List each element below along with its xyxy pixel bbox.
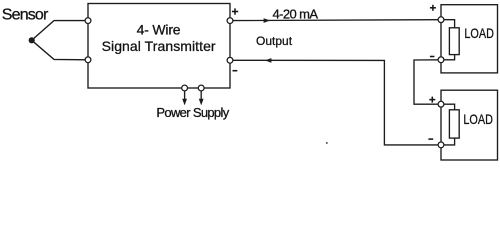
svg-text:4- Wire: 4- Wire (137, 21, 181, 37)
wire power supply lead 2 (200, 91, 202, 100)
svg-text:LOAD: LOAD (463, 111, 493, 127)
wire sensor lower lead (32, 40, 88, 60)
terminal T5 power supply left (182, 85, 188, 91)
terminal T1 transmitter input upper (85, 18, 91, 24)
polarity + transmitter output (232, 11, 238, 13)
arrowhead power supply 1 (182, 99, 187, 106)
svg-text:4-20 mA: 4-20 mA (273, 7, 319, 22)
sensor junction dot (29, 37, 35, 43)
polarity - load2 (428, 138, 433, 140)
arrowhead output return direction (265, 58, 272, 63)
terminal T9 load2 + (438, 101, 444, 107)
polarity + load2 (429, 99, 435, 101)
stray dot (326, 142, 328, 144)
terminal T8 load1 - (438, 57, 444, 63)
resistor load1 leads (441, 20, 455, 28)
svg-text:Signal Transmitter: Signal Transmitter (102, 38, 216, 54)
terminal T3 transmitter + output (227, 18, 233, 24)
terminal T10 load2 - (438, 142, 444, 148)
resistor R-load2 (449, 110, 459, 138)
polarity - load1 (430, 56, 435, 58)
wire output return (230, 60, 441, 145)
svg-text:Power Supply: Power Supply (156, 105, 229, 120)
terminal T6 power supply right (198, 85, 204, 91)
transmitter U1 box (88, 4, 230, 89)
polarity + load1 (430, 7, 436, 9)
terminal T7 load1 + (438, 17, 444, 23)
polarity - transmitter output (233, 70, 238, 72)
resistor R-load1 (449, 28, 459, 55)
wire power supply lead 1 (184, 91, 186, 100)
svg-text:LOAD: LOAD (464, 25, 494, 41)
arrowhead 4-20 mA direction (264, 18, 271, 23)
wire load1 minus to load2 plus (414, 60, 441, 104)
svg-text:Sensor: Sensor (2, 7, 49, 24)
resistor load2 leads (441, 104, 455, 110)
wire 4-20 mA output top (230, 19, 441, 22)
load U2 box (441, 5, 498, 73)
load U3 box (441, 90, 498, 160)
svg-text:Output: Output (256, 34, 293, 48)
terminal T2 transmitter input lower (85, 57, 91, 63)
terminal T4 transmitter - output (227, 57, 233, 63)
wire sensor upper lead (32, 21, 88, 41)
arrowhead power supply 2 (199, 99, 204, 106)
